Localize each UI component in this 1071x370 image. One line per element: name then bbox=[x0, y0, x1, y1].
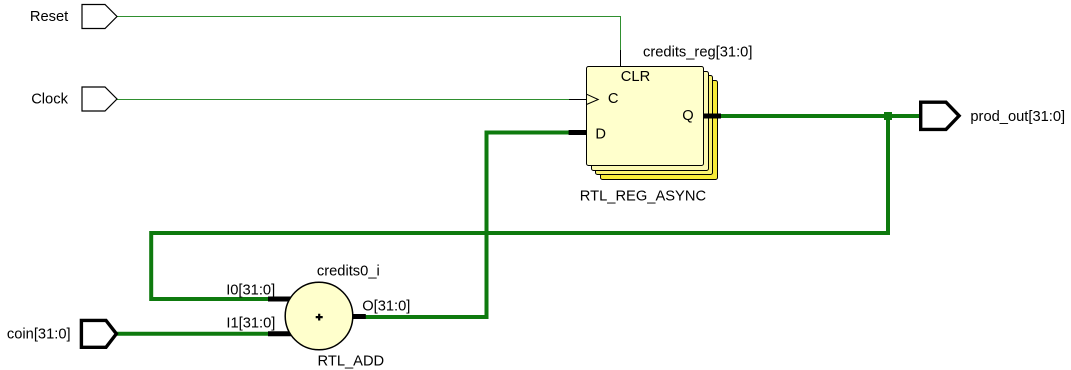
svg-text:credits0_i: credits0_i bbox=[317, 263, 380, 279]
svg-text:Reset: Reset bbox=[30, 9, 68, 25]
svg-text:CLR: CLR bbox=[621, 69, 650, 85]
svg-text:coin[31:0]: coin[31:0] bbox=[7, 327, 71, 343]
svg-text:C: C bbox=[608, 91, 619, 107]
svg-text:O[31:0]: O[31:0] bbox=[362, 299, 410, 315]
svg-text:prod_out[31:0]: prod_out[31:0] bbox=[970, 109, 1065, 125]
svg-text:RTL_ADD: RTL_ADD bbox=[318, 353, 385, 369]
svg-text:Q: Q bbox=[682, 108, 693, 124]
svg-text:I1[31:0]: I1[31:0] bbox=[226, 316, 275, 332]
svg-text:RTL_REG_ASYNC: RTL_REG_ASYNC bbox=[580, 189, 707, 205]
svg-text:Clock: Clock bbox=[31, 92, 68, 108]
svg-text:D: D bbox=[595, 127, 606, 143]
svg-text:I0[31:0]: I0[31:0] bbox=[226, 282, 275, 298]
svg-text:credits_reg[31:0]: credits_reg[31:0] bbox=[643, 45, 752, 61]
